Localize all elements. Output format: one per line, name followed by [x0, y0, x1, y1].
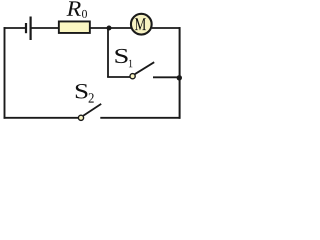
switch S1 arm (open blade) [135, 62, 154, 74]
wire: branch corner to S1 pivot [107, 76, 130, 78]
switch S2 pivot circle [78, 115, 83, 120]
wire: motor to top right corner [152, 27, 181, 29]
label S1 [115, 49, 127, 63]
label S2 [76, 84, 88, 99]
wire: S2 fixed contact to bottom right [100, 117, 180, 119]
wire: battery to resistor [32, 27, 59, 29]
wire: resistor to motor [90, 27, 131, 29]
switch S1 pivot circle [130, 74, 135, 79]
wire: S1 fixed contact stub [153, 76, 180, 78]
junction node A dot [107, 26, 112, 31]
junction dot on right wire [177, 75, 182, 80]
motor M circle [131, 14, 152, 35]
label R0 [67, 1, 81, 15]
motor M letter [135, 18, 146, 30]
wire: right vertical [179, 27, 181, 119]
battery positive plate (long bar) [30, 17, 32, 41]
wire: bottom left segment [4, 117, 79, 119]
switch S2 arm (open blade) [83, 104, 101, 116]
wire: node A down branch [107, 28, 109, 77]
wire: left vertical [4, 27, 6, 119]
battery negative plate (short bar) [25, 23, 27, 33]
resistor R0 body [59, 21, 90, 33]
wire: top left to battery [4, 27, 26, 29]
